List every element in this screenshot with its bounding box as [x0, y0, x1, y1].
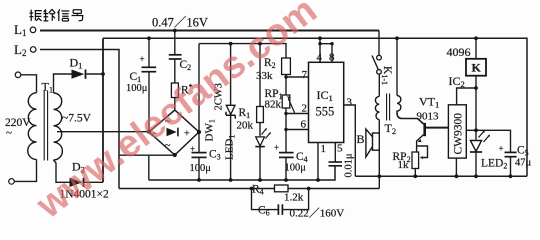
wire T1 secondary bottom to D2 [54, 160, 70, 182]
wire T2 right top supply [396, 38, 398, 95]
wire C1 top lead [148, 38, 150, 67]
switch K1-1 [377, 55, 382, 60]
svg-text:9013: 9013 [417, 111, 440, 123]
wire bottom right rail [355, 175, 527, 177]
capacitor C5 47u [505, 152, 517, 156]
potentiometer RP1 [282, 95, 290, 108]
wire R1 column [259, 44, 261, 180]
capacitor C3 [192, 153, 207, 158]
svg-text:82k: 82k [265, 99, 282, 111]
wire CW9300 bottom [455, 158, 457, 176]
speaker B [366, 129, 379, 157]
wire pin3 output [344, 105, 356, 176]
wire DW1 column [230, 44, 232, 180]
IC1 555 box [309, 62, 344, 142]
wire T1 primary bottom [15, 160, 37, 182]
wire pin2 [286, 113, 309, 115]
wire C3 bottom lead [198, 157, 200, 180]
wire C5 bottom [510, 157, 512, 177]
wire top node to R2 [199, 44, 286, 58]
wire VT1 emitter [417, 135, 424, 152]
wire pin6 [286, 129, 309, 131]
terminal mains top [15, 72, 21, 78]
wire bridge bottom vertex to L2 line [119, 154, 175, 156]
svg-text:R4: R4 [252, 184, 264, 197]
wire center tap to bridge [57, 131, 149, 133]
wire VT1 base from CW9300 [426, 127, 449, 129]
relay K box [466, 59, 486, 76]
wire C2 to R* [174, 59, 176, 83]
wire IC2 link [457, 88, 476, 105]
svg-text:K: K [472, 61, 482, 75]
svg-text:C3: C3 [209, 149, 221, 162]
capacitor C5 0.01u (pin5) [329, 162, 343, 166]
svg-text:+: + [499, 144, 504, 154]
svg-text:CW9300: CW9300 [453, 113, 465, 155]
svg-text:0.47／16V: 0.47／16V [152, 16, 208, 30]
wire switch K1-1 drop [378, 31, 380, 56]
wire L1 top rail [40, 30, 379, 32]
wire C1 bottom lead [148, 72, 150, 132]
svg-text:D1: D1 [70, 56, 83, 71]
svg-text:1: 1 [321, 143, 327, 155]
wire C5 branch [476, 130, 511, 152]
svg-text:20k: 20k [237, 120, 254, 132]
svg-text:3: 3 [347, 97, 353, 109]
transformer T1 [28, 91, 63, 161]
wire CW9300 right pin [466, 129, 476, 131]
wire pin4 pin8 supply [320, 38, 332, 62]
resistor R* [171, 83, 178, 98]
svg-text:4096: 4096 [447, 45, 471, 59]
wire RP2 wiper loop [417, 146, 428, 158]
potentiometer RP2 [412, 152, 419, 169]
svg-text:6: 6 [301, 119, 307, 131]
svg-text:7: 7 [302, 69, 308, 81]
wire K relay column [475, 38, 477, 88]
wire +V rail2 [103, 38, 527, 176]
svg-text:0.22／160V: 0.22／160V [290, 207, 345, 220]
capacitor C6 [278, 204, 282, 215]
bridge internal diode [153, 117, 191, 152]
wire speaker junction riser [378, 176, 380, 188]
svg-text:C6: C6 [258, 205, 270, 218]
transistor VT1 [418, 123, 425, 142]
diode D2 [70, 178, 84, 187]
diode D1 [72, 70, 86, 79]
wire +ring node vertical x199 [198, 44, 200, 153]
svg-text:B: B [357, 132, 365, 146]
bridge rectifier diamond [149, 110, 199, 155]
wire C2 column from L1 [174, 31, 176, 55]
svg-text:~: ~ [6, 127, 12, 139]
wire R2 to RP1 column [285, 75, 287, 153]
svg-text:47μ: 47μ [515, 158, 532, 169]
wire K column to LED2 [475, 88, 477, 176]
svg-text:+: + [274, 143, 279, 153]
label 振铃信号 [30, 9, 84, 21]
capacitor C2 [169, 55, 182, 59]
wire L2 [40, 50, 119, 189]
svg-text:1.2k: 1.2k [284, 192, 304, 204]
wire C4 bottom lead [285, 157, 287, 180]
svg-text:C2: C2 [180, 59, 192, 72]
wire pin5 to 0.01u [334, 143, 336, 162]
svg-text:+: + [140, 54, 145, 64]
wire pin1 ground [317, 143, 319, 181]
svg-text:8: 8 [329, 52, 335, 64]
wire D1 cathode [87, 73, 104, 75]
svg-text:IC2: IC2 [449, 74, 465, 89]
IC2 CW9300 box [448, 105, 466, 158]
svg-text:K1-1: K1-1 [380, 66, 393, 85]
svg-text:VT1: VT1 [419, 95, 439, 110]
svg-text:R1: R1 [239, 107, 251, 120]
svg-text:T1: T1 [42, 80, 54, 95]
resistor R4 [275, 185, 289, 192]
wire ground rail A [149, 166, 335, 180]
zener DW1 [226, 105, 235, 118]
wire D1/D2 cathode vertical [102, 38, 104, 182]
svg-text:100μ: 100μ [126, 83, 148, 94]
svg-text:2: 2 [302, 103, 308, 115]
wire C6 loop [252, 189, 309, 210]
svg-text:LED1: LED1 [224, 135, 237, 160]
svg-text:L1: L1 [14, 22, 26, 38]
wire T1 primary top [21, 75, 37, 93]
transformer T2 [375, 94, 401, 121]
capacitor C1 [142, 67, 157, 71]
terminal L2 [30, 47, 36, 53]
wire T2 right bottom to VT1 collector [397, 113, 424, 125]
svg-text:100μ: 100μ [285, 163, 307, 174]
svg-text:LED2: LED2 [481, 158, 507, 171]
svg-text:1k: 1k [398, 159, 410, 171]
svg-text:+: + [190, 144, 195, 154]
resistor R1 [257, 107, 264, 123]
wire ground rail A left riser [148, 155, 150, 180]
wire T1 secondary top to D1 [54, 74, 72, 93]
resistor R2 [282, 58, 291, 75]
svg-text:555: 555 [316, 105, 335, 119]
terminal mains bottom [9, 179, 15, 185]
wire pin7 [286, 76, 309, 78]
svg-text:T2: T2 [385, 121, 397, 136]
wire speaker bottom [378, 150, 380, 176]
svg-text:DW1: DW1 [204, 119, 217, 141]
watermark www.elecfans.com [29, 0, 325, 227]
svg-text:~7.5V: ~7.5V [62, 113, 92, 125]
wire rail B (L2 return with R4) [119, 188, 379, 190]
wire RP2 bottom [414, 169, 416, 177]
svg-text:0.01μ: 0.01μ [344, 153, 355, 177]
LED1 [255, 128, 271, 147]
wire T2 left bottom to speaker [378, 120, 380, 133]
svg-text:IC1: IC1 [317, 88, 333, 103]
svg-text:+: + [184, 129, 190, 140]
svg-text:5: 5 [337, 143, 343, 155]
capacitor C4 [279, 153, 294, 158]
terminal L1 [30, 27, 36, 33]
wire D2 cathode [85, 181, 104, 183]
svg-text:100μ: 100μ [190, 163, 212, 174]
LED2 [470, 130, 490, 152]
wire R* to bridge top [174, 98, 176, 111]
wire switch to T2 [378, 74, 380, 96]
svg-text:L2: L2 [14, 42, 26, 58]
svg-text:4: 4 [317, 52, 323, 64]
